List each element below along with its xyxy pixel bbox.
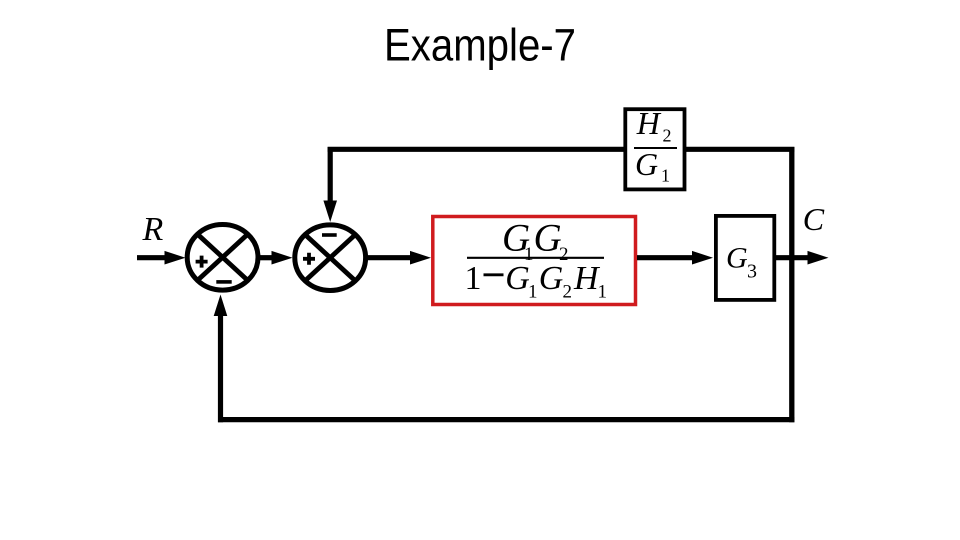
svg-text:G: G — [505, 260, 530, 297]
svg-text:1: 1 — [528, 281, 538, 302]
value label H2 numerator — [636, 105, 672, 146]
wire bottom feedback rise with arrow into S1 — [214, 295, 228, 423]
wire bottom feedback horizontal — [218, 417, 794, 422]
svg-text:G: G — [534, 217, 562, 260]
value label G3 — [726, 242, 757, 283]
svg-text:1: 1 — [661, 166, 670, 186]
plus sign S2 — [303, 253, 315, 265]
block G3 box — [716, 216, 774, 300]
node takeoff vertical line at output — [789, 147, 794, 422]
wire S2 to block G1G2 — [367, 251, 431, 265]
summing junction S2 — [295, 225, 366, 291]
block H2/G1 box — [625, 109, 684, 189]
svg-text:G: G — [635, 146, 658, 182]
wire S1 to S2 with arrow — [258, 251, 293, 265]
value label G1G2 numerator — [502, 217, 569, 266]
value label 1-G1G2H1 denominator — [465, 260, 608, 302]
svg-text:Example-7: Example-7 — [384, 20, 576, 71]
svg-text:R: R — [142, 211, 164, 248]
svg-text:G: G — [726, 242, 748, 275]
wire top feedback right segment — [685, 147, 794, 152]
block G1G2/(1-G1G2H1) red box — [433, 217, 636, 305]
wire block to G3 — [637, 251, 713, 265]
plus sign S1 — [196, 256, 208, 268]
wire output arrow to C — [775, 251, 829, 265]
svg-text:3: 3 — [747, 261, 757, 283]
svg-text:C: C — [803, 201, 825, 237]
svg-text:1: 1 — [465, 260, 482, 297]
fraction bar — [467, 257, 604, 259]
svg-text:2: 2 — [663, 126, 672, 146]
wire top feedback drop with arrow into S2 — [323, 147, 337, 222]
fraction bar H2/G1 — [634, 147, 677, 149]
minus sign S2 — [322, 233, 337, 237]
summing junction S1 — [187, 224, 258, 290]
svg-text:H: H — [636, 105, 662, 141]
svg-text:1: 1 — [598, 281, 608, 302]
wire input arrow into summing junction S1 — [137, 251, 186, 265]
value label G1 denominator — [635, 146, 670, 186]
svg-text:2: 2 — [563, 281, 573, 302]
wire top feedback left segment — [328, 147, 626, 152]
minus sign S1 — [216, 280, 231, 284]
svg-text:G: G — [539, 260, 564, 297]
